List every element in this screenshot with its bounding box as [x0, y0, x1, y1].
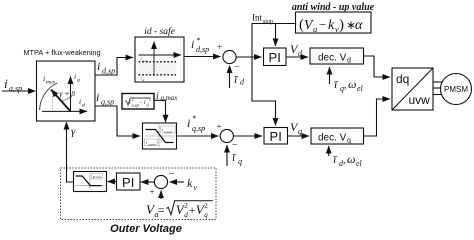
- svg-text:PI: PI: [269, 50, 281, 65]
- wire sum3 to PI outer: [141, 181, 155, 183]
- block id-safe: [135, 26, 184, 82]
- svg-text:i: i: [187, 116, 190, 130]
- wire id-safe to sum1: [184, 56, 221, 58]
- svg-text:i: i: [191, 37, 194, 51]
- wire PI outer to gamma limiter: [107, 181, 116, 183]
- wire feedback into dec Vq: [328, 146, 330, 156]
- svg-text:q: q: [347, 138, 351, 145]
- svg-text:*: *: [197, 36, 201, 45]
- wire feedback i_q into sum2: [226, 145, 228, 166]
- svg-text:dec. V: dec. V: [318, 133, 347, 144]
- svg-text:2: 2: [204, 202, 208, 210]
- wire sqrt to limiter: [154, 100, 166, 122]
- svg-text:q,sp: q,sp: [192, 124, 205, 133]
- svg-text:d,sp: d,sp: [196, 45, 209, 54]
- wire dec Vd to dq: [364, 56, 391, 77]
- svg-text:α: α: [355, 18, 363, 33]
- svg-text:+: +: [150, 187, 155, 197]
- svg-text:q: q: [204, 211, 208, 219]
- motor PMSM: [441, 74, 472, 105]
- svg-text:−: −: [234, 62, 240, 73]
- svg-text:): ): [339, 17, 344, 33]
- axis i_q inside MTPA: [71, 72, 81, 111]
- wire sum2 to PI q: [233, 135, 262, 137]
- wire PI d to dec Vd: [286, 56, 308, 58]
- svg-text:d,sp: d,sp: [102, 67, 115, 76]
- summing junction sum2: [217, 122, 239, 152]
- id-safe vertical axis: [153, 42, 155, 77]
- wire input i_a,sp: [2, 90, 36, 92]
- wire k_v into sum3: [170, 181, 185, 183]
- svg-text:q: q: [298, 127, 302, 136]
- svg-text:anti wind - up value: anti wind - up value: [292, 2, 375, 13]
- label i*_q,sp: [187, 114, 205, 133]
- svg-text:d: d: [240, 78, 245, 87]
- block iq limiter (saturation): [143, 123, 177, 149]
- svg-text:i: i: [4, 76, 8, 91]
- svg-text:k: k: [328, 18, 335, 33]
- svg-text:el: el: [356, 159, 363, 168]
- svg-text:+: +: [189, 203, 196, 217]
- svg-text:i: i: [96, 90, 99, 104]
- svg-text:v: v: [194, 183, 198, 192]
- svg-text:−: −: [169, 168, 175, 180]
- svg-text:=: =: [158, 203, 165, 217]
- svg-text:d: d: [347, 58, 351, 65]
- svg-text:el: el: [357, 84, 364, 93]
- svg-text:dq: dq: [396, 72, 409, 86]
- wire gamma limiter output to MTPA: [67, 122, 74, 182]
- svg-text:ī: ī: [334, 77, 339, 91]
- svg-text:PMSM: PMSM: [444, 85, 468, 94]
- svg-text:ī: ī: [333, 152, 338, 166]
- label anti wind-up value: [292, 2, 375, 13]
- block gamma limiter: [74, 172, 107, 192]
- label i_q,max: [156, 92, 178, 102]
- svg-text:d: d: [143, 78, 145, 82]
- summing junction sum1: [217, 42, 240, 73]
- equation V_a = sqrt(Vd^2+Vq^2): [146, 201, 213, 219]
- block dec Vq: [311, 128, 364, 145]
- wire i_d,sp from MTPA to id-safe: [95, 58, 133, 76]
- dashed projection lines: [53, 93, 71, 111]
- wire anti-windup to PI q: [252, 24, 276, 126]
- label i_q bar: [232, 150, 242, 166]
- svg-text:dec. V: dec. V: [318, 53, 347, 64]
- block MTPA + flux-weakening: [23, 48, 100, 121]
- svg-text:Int: Int: [252, 13, 262, 23]
- block dq/uvw transform: [392, 68, 433, 110]
- wire V_a into sum3: [160, 191, 162, 200]
- wires dq to PMSM (3-phase): [433, 82, 443, 95]
- wire feedback into dec Vd: [329, 67, 331, 84]
- svg-text:k: k: [187, 176, 193, 190]
- wire PI q to dec Vq: [288, 135, 310, 137]
- dashed box Outer Voltage: [61, 168, 217, 235]
- wire feedback i_d into sum1: [229, 66, 231, 89]
- svg-text:q: q: [77, 78, 80, 84]
- svg-text:i: i: [156, 92, 159, 102]
- label i_d,sp: [97, 59, 115, 76]
- block dec Vd: [310, 48, 364, 65]
- svg-text:+: +: [217, 42, 222, 52]
- id-safe hatched band: [139, 62, 177, 82]
- label Int_stop: [252, 13, 273, 26]
- svg-text:,: ,: [344, 80, 347, 91]
- current vector arrow: [51, 90, 71, 112]
- svg-text:ω: ω: [348, 77, 356, 91]
- summing junction sum3: [150, 168, 175, 197]
- svg-text:i: i: [97, 59, 100, 73]
- wire anti-windup to PI d: [276, 24, 296, 47]
- svg-text:d: d: [184, 211, 188, 219]
- label k_v: [187, 176, 198, 192]
- label i_q,sp: [96, 90, 114, 107]
- label V_q: [290, 120, 302, 136]
- label i_d bar, omega_el: [333, 152, 363, 168]
- svg-text:i: i: [79, 97, 81, 106]
- angle arc gamma+beta: [60, 89, 76, 101]
- svg-text:*2: *2: [147, 97, 152, 102]
- svg-text:q,max: q,max: [161, 94, 179, 102]
- svg-text:uvw: uvw: [409, 93, 431, 107]
- svg-text:max: max: [96, 175, 102, 179]
- svg-text:i: i: [74, 72, 76, 81]
- svg-text:PI: PI: [122, 175, 134, 190]
- label gamma: [71, 126, 76, 138]
- wire dec Vq to dq: [364, 99, 391, 136]
- svg-text:id - safe: id - safe: [144, 26, 175, 37]
- wire limiter to sum2: [177, 135, 219, 137]
- svg-text:*: *: [193, 114, 197, 123]
- svg-text:,: ,: [343, 155, 346, 166]
- svg-text:q,sp: q,sp: [101, 98, 114, 107]
- axis i_d inside MTPA: [42, 97, 87, 111]
- svg-text:ī: ī: [234, 72, 239, 86]
- svg-text:+: +: [217, 122, 222, 132]
- svg-text:max: max: [46, 80, 56, 86]
- id-safe horizontal output arrow: [139, 55, 182, 64]
- wire i_q,sp from MTPA to limiter: [95, 106, 140, 136]
- svg-text:γ + β: γ + β: [60, 89, 76, 98]
- svg-text:i: i: [43, 74, 45, 83]
- block PI q: [264, 128, 288, 145]
- svg-text:γ: γ: [71, 126, 76, 138]
- svg-text:2: 2: [184, 202, 188, 210]
- block PI d: [264, 48, 287, 66]
- svg-text:ω: ω: [347, 152, 355, 166]
- svg-text:a: a: [313, 24, 317, 34]
- svg-text:stop: stop: [263, 19, 273, 25]
- block sqrt(i2asp - i*2d): [122, 94, 154, 110]
- svg-text:d: d: [82, 103, 85, 109]
- svg-text:MTPA + flux-weakening: MTPA + flux-weakening: [23, 48, 100, 57]
- label V_d: [290, 42, 303, 58]
- block PI outer: [117, 173, 141, 190]
- label i_d bar: [234, 72, 245, 87]
- label i*_d,sp: [191, 36, 209, 54]
- svg-text:2: 2: [132, 97, 134, 102]
- block (Va - kv)*alpha: [296, 12, 372, 34]
- svg-text:q: q: [238, 157, 242, 166]
- svg-text:−: −: [319, 17, 326, 32]
- wire sum1 to PI d: [236, 56, 261, 58]
- svg-text:a,sp: a,sp: [9, 84, 22, 93]
- svg-text:PI: PI: [270, 129, 282, 144]
- arc i_max limit: [40, 74, 58, 110]
- label i_q bar, omega_el: [334, 77, 364, 93]
- svg-text:Outer Voltage: Outer Voltage: [110, 223, 182, 235]
- label i_a,sp: [4, 76, 22, 93]
- svg-text:ī: ī: [232, 150, 237, 164]
